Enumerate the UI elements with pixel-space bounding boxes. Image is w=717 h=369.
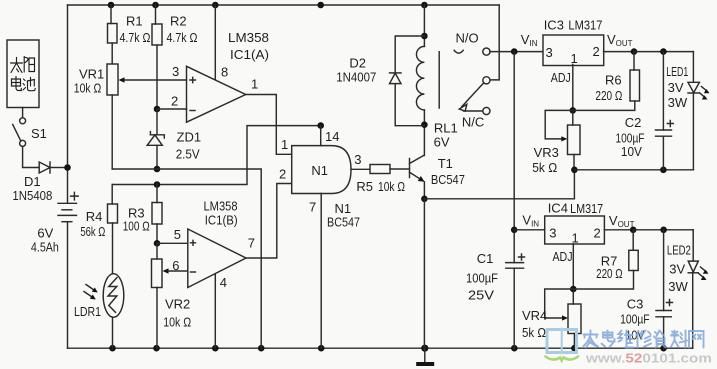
node C2 bottom junction [660,167,667,174]
resistor R7 [573,230,638,289]
svg-text:C3: C3 [627,297,644,312]
svg-text:R1: R1 [126,14,143,29]
transistor Q1 T1 BC547 [410,125,425,199]
node R3 pin5 junction [154,240,161,247]
wire left rail lower [67,222,69,349]
diode D1 [39,162,64,173]
potentiometer VR2 [152,243,169,348]
svg-text:LDR1: LDR1 [74,304,101,319]
svg-text:2: 2 [593,44,600,59]
svg-text:8: 8 [221,65,228,80]
node VR3 bottom junction [571,167,578,174]
node VOUT R6 junction [631,48,638,55]
relay contact arm arrowhead [459,104,467,111]
svg-text:14: 14 [325,129,339,144]
wire solar box to S1 [22,108,24,118]
svg-text:IC4: IC4 [548,201,568,216]
svg-text:7: 7 [248,236,255,251]
svg-text:100µF: 100µF [466,271,498,286]
svg-text:LED1: LED1 [666,64,688,79]
svg-text:6V: 6V [434,135,450,150]
capacitor C1 [506,254,525,348]
capacitor C2 [656,52,674,170]
svg-text:10V: 10V [621,144,642,159]
LED1 [688,52,710,170]
svg-text:220 Ω: 220 Ω [595,88,622,103]
node ADJ VR4 junction [570,286,577,293]
node bottom rail C1 [511,345,518,352]
svg-text:R5: R5 [356,179,373,194]
svg-text:1: 1 [281,137,288,152]
svg-text:3: 3 [546,45,553,60]
node relay top junction [421,33,428,40]
resistor R1 [108,5,118,64]
svg-text:IC1(A): IC1(A) [230,47,269,62]
node bottom rail C3 [660,345,667,352]
svg-text:100µF: 100µF [620,312,650,327]
regulator IC4 LM317 [514,216,633,289]
op-amp U1 IC1(B) LM358 [157,184,292,349]
svg-text:6V: 6V [37,226,53,241]
svg-text:IC1(B): IC1(B) [205,213,238,228]
wire VR1 bottom to ground net [112,169,261,348]
svg-text:LM358: LM358 [204,199,238,214]
svg-text:www.520101.com: www.520101.com [585,351,712,366]
svg-text:3V: 3V [669,262,685,277]
svg-text:N1: N1 [311,163,328,178]
svg-text:5: 5 [174,227,181,242]
wire VIN column to C1 [513,52,515,263]
resistor R5 [370,165,410,174]
svg-text:R2: R2 [170,14,187,29]
node R3 top junction [154,181,161,188]
relay contact N/O [454,48,542,55]
node top rail junction R2 [152,2,159,9]
svg-text:1N4007: 1N4007 [336,70,376,85]
node bottom rail VR2 [153,345,160,352]
svg-text:1: 1 [572,231,579,246]
svg-text:5k Ω: 5k Ω [532,160,557,175]
svg-text:2: 2 [279,167,286,182]
svg-text:3W: 3W [668,95,688,110]
svg-text:1N5408: 1N5408 [12,188,52,203]
svg-text:VR1: VR1 [79,67,104,82]
svg-text:VR3: VR3 [534,145,559,160]
wire bottom ground rail [68,347,693,349]
svg-text:ZD1: ZD1 [177,130,202,145]
switch S1 [13,118,26,147]
node ZD1 wire1 junction [154,166,161,173]
op-amp U1 IC1(A) LM358 [125,5,292,154]
wire top supply rail [68,4,500,6]
svg-text:100 Ω: 100 Ω [123,219,150,234]
photoresistor LDR1 [84,274,124,349]
node C3 top junction [660,227,667,234]
regulator IC3 LM317 [543,35,634,110]
node IC4 VIN junction [511,227,518,234]
svg-text:T1: T1 [438,156,453,171]
zener ZD1 [147,109,164,169]
svg-text:IC3: IC3 [544,18,564,33]
ground [416,348,434,366]
svg-text:VR2: VR2 [165,297,190,312]
relay contact N/C [464,107,491,114]
potentiometer VR3 [545,110,580,169]
svg-text:5k Ω: 5k Ω [522,325,546,340]
wire emitter to bottom rail [423,199,425,348]
node bottom rail ground-stub [421,345,428,352]
svg-text:10k Ω: 10k Ω [163,315,191,330]
svg-text:N/O: N/O [456,30,479,45]
svg-text:1: 1 [571,51,578,66]
node top rail junction pin8 [212,2,219,9]
svg-text:2: 2 [171,94,178,109]
wire regulator1 return rail [574,169,693,171]
node bottom rail VR4 [571,345,578,352]
battery 6V 4.5Ah [58,192,78,221]
svg-text:N/C: N/C [462,115,484,130]
svg-text:C1: C1 [477,251,494,266]
svg-text:D1: D1 [24,174,41,189]
wire VOUT1 to LED1 [634,51,693,53]
node C2 top junction [660,48,667,55]
svg-text:RL1: RL1 [434,121,458,136]
svg-text:C2: C2 [625,115,642,130]
node bottom rail pin4 [212,345,219,352]
wire S1 to D1 [23,146,40,167]
node bottom rail LDR [109,345,116,352]
svg-text:4.5Ah: 4.5Ah [31,240,59,255]
svg-text:7: 7 [309,200,316,215]
resistor R6 [573,52,640,111]
svg-text:LM317: LM317 [568,18,602,33]
svg-text:4.7k Ω: 4.7k Ω [167,30,198,45]
svg-text:6: 6 [172,258,179,273]
svg-text:D2: D2 [349,56,366,71]
svg-text:ADJ: ADJ [551,70,571,85]
capacitor C3 [656,230,673,348]
node R2 pin2 junction [154,106,161,113]
svg-text:3V: 3V [668,80,684,95]
svg-text:ADJ: ADJ [553,249,573,264]
svg-text:R4: R4 [86,209,103,224]
svg-text:S1: S1 [31,126,47,141]
LED2 [688,230,708,348]
watermark book icon [546,329,579,361]
svg-text:BC547: BC547 [431,172,465,187]
potentiometer VR4 [545,289,581,348]
svg-text:25V: 25V [468,288,494,303]
svg-text:BC547: BC547 [327,215,360,230]
svg-text:3: 3 [172,64,179,79]
svg-text:2: 2 [594,226,601,241]
svg-text:LM317: LM317 [570,201,603,216]
svg-text:LM358: LM358 [228,30,269,45]
relay contact arm [462,83,484,107]
wire R4 R3 top net to pin14 [112,126,321,185]
resistor R4 [108,185,118,274]
svg-text:10k Ω: 10k Ω [378,179,405,194]
resistor R2 [152,5,162,109]
svg-text:1: 1 [251,77,258,92]
node VIN branch junction [511,48,518,55]
node VOUT R7 junction [630,227,637,234]
node top rail junction relay [421,2,428,9]
watermark text 家电维修资料网 [584,331,704,348]
node bottom rail pin7 [318,345,325,352]
node pin14 V+ junction [317,122,324,129]
svg-text:3W: 3W [668,279,688,294]
svg-text:R6: R6 [605,73,622,88]
relay coil RL1 [416,5,439,125]
svg-text:4: 4 [220,275,227,290]
svg-text:VR4: VR4 [522,308,547,323]
svg-text:4.7k Ω: 4.7k Ω [120,30,151,45]
node ADJ VR3 junction [570,107,577,114]
diode D2 [390,36,425,126]
node bottom rail VR1-gnd [258,345,265,352]
svg-text:56k Ω: 56k Ω [80,224,105,239]
relay contact common feed [490,5,499,80]
resistor R3 [152,185,162,244]
svg-text:220 Ω: 220 Ω [596,266,623,281]
svg-text:3: 3 [354,152,361,167]
node D1 battery junction [64,164,71,171]
wire left rail upper [67,5,69,203]
and-gate N1 [292,126,370,349]
node top rail junction R1 [108,2,115,9]
wire emitter to regulator1 return [424,170,574,199]
svg-text:LED2: LED2 [667,243,691,258]
solar cell box 太阳电池 [7,40,39,108]
svg-text:10k Ω: 10k Ω [74,81,102,96]
svg-text:2.5V: 2.5V [176,147,200,162]
wire VOUT2 to LED2 [633,229,693,231]
potentiometer VR1 [107,64,125,169]
relay contact common pivot [483,77,490,84]
svg-text:3: 3 [549,226,556,241]
node relay bottom junction [421,121,428,128]
node top rail junction pin14 [317,2,324,9]
node emitter junction [421,196,428,203]
